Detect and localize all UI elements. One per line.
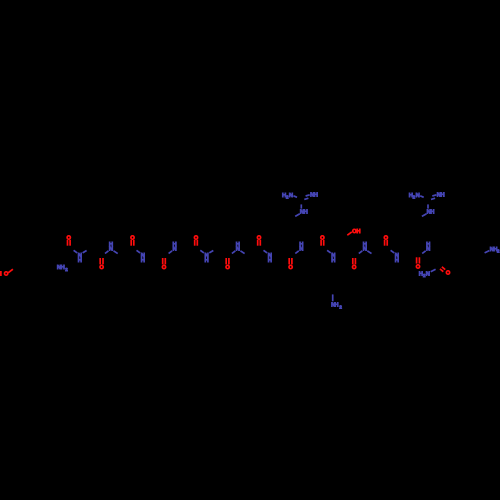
bond C-N half (upper) #5 [359, 251, 363, 254]
svg-text:O: O [446, 271, 451, 277]
svg-text:H: H [141, 258, 145, 264]
svg-text:H: H [395, 258, 399, 264]
arginine 2 bond NH-CH2 half [422, 214, 427, 217]
arginine 1 bond H2N-C half [294, 196, 298, 198]
bond C-N half #5 [327, 250, 331, 253]
bond HO-ring (red half) [8, 269, 13, 273]
svg-text:N: N [173, 247, 177, 253]
lysine2 side-chain bond to NH2 [485, 251, 490, 253]
svg-text:N: N [416, 193, 420, 199]
svg-text:H: H [430, 210, 434, 216]
arginine 2 bond H2N-C half [420, 196, 424, 198]
bond C-N half (upper) #6 [422, 251, 426, 254]
C=O double bond (up) #3 [194, 240, 196, 246]
svg-text:N: N [289, 193, 293, 199]
bond C-N half (upper) #4 [295, 251, 299, 254]
svg-text:H: H [0, 272, 2, 278]
svg-text:O: O [162, 265, 167, 271]
C=O double bond (up) #1 [67, 240, 69, 246]
svg-text:H: H [78, 258, 82, 264]
svg-text:N: N [109, 247, 113, 253]
bond C-N half (upper) #3 [232, 251, 236, 254]
bond C-N half #2 [137, 250, 141, 253]
bond N-Ca half (upper) #5 [367, 251, 371, 254]
bond C-N half #6 [391, 250, 395, 253]
svg-text:O: O [288, 265, 293, 271]
C=O double bond (down) #5 [352, 258, 354, 264]
svg-text:H: H [268, 258, 272, 264]
bond C-N half #3 [200, 250, 204, 253]
svg-text:H: H [356, 229, 360, 235]
svg-text:H: H [304, 210, 308, 216]
arginine 2 C=NH double bond halves [432, 195, 436, 196]
svg-text:N: N [426, 247, 430, 253]
arginine 1 bond C-NH half (vertical) [300, 204, 302, 208]
bond CH2-OH (red half) [347, 232, 352, 235]
svg-text:H: H [205, 258, 209, 264]
svg-text:H: H [331, 258, 335, 264]
bond C-N half (upper) #2 [169, 251, 173, 254]
bond N-Ca half (upper) #1 [114, 251, 118, 254]
svg-text:N: N [426, 272, 430, 278]
arginine 2 bond C-NH half (vertical) [427, 204, 429, 208]
bond C-N half #1 [74, 250, 78, 253]
svg-text:N: N [236, 247, 240, 253]
C=O double bond (down) #4 [288, 258, 290, 264]
svg-text:O: O [99, 265, 104, 271]
bond C-N half (upper) #1 [105, 251, 109, 254]
svg-text:N: N [299, 247, 303, 253]
C=O double bond (up) #4 [257, 240, 259, 246]
C=O double bond (up) #6 [384, 240, 386, 246]
C=O double bond (down) #1 [99, 258, 101, 264]
C=O double bond (up) #5 [320, 240, 322, 246]
svg-text:O: O [352, 265, 357, 271]
C=O double bond (down) #3 [225, 258, 227, 264]
arginine 1 bond NH-CH2 half [295, 214, 300, 217]
lysine side-chain bond to NH2 [332, 294, 334, 301]
svg-text:H: H [314, 193, 318, 199]
svg-text:H: H [441, 193, 445, 199]
svg-text:O: O [416, 264, 421, 270]
C-terminal C=O double bond halves [442, 267, 445, 270]
arginine 1 C=NH double bond halves [306, 195, 310, 196]
bond N-Ca half #1 [83, 251, 87, 253]
C=O double bond (up) #2 [130, 240, 132, 246]
C=O double bond (down) #2 [162, 258, 164, 264]
bond H2N-C half [431, 269, 436, 272]
svg-text:O: O [225, 265, 230, 271]
svg-text:H: H [334, 303, 338, 309]
bond C-N half #4 [264, 250, 268, 253]
svg-text:N: N [363, 247, 367, 253]
svg-text:H: H [61, 265, 65, 271]
bond N-Ca half (upper) #3 [240, 251, 244, 254]
bond N-Ca half #3 [209, 251, 213, 253]
C=O double bond (down) #6 [416, 257, 418, 263]
